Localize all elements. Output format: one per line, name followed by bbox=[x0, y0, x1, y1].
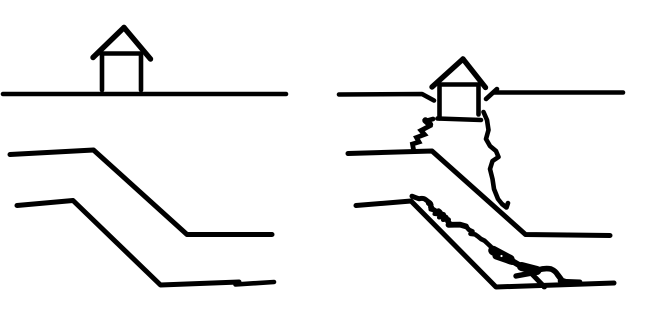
slope crack lower squiggle bbox=[466, 226, 491, 246]
left layer 2 line bbox=[17, 201, 239, 286]
left crack zigzag bbox=[413, 119, 434, 150]
right house roof left slope bbox=[432, 59, 463, 87]
left crack knot bbox=[426, 121, 431, 125]
right ground line left segment bbox=[339, 94, 434, 101]
slope crack diagonal spur bbox=[530, 272, 544, 287]
slope crack junction blob bbox=[522, 267, 538, 271]
slope crack knot blob lower bbox=[496, 256, 512, 262]
slope crack jagged upper squiggle bbox=[412, 196, 449, 222]
right layer 2 line bbox=[356, 201, 614, 287]
left house roof right slope bbox=[124, 28, 151, 60]
right house left wall bbox=[437, 85, 442, 119]
left layer 2 line overlap segment bbox=[236, 282, 275, 285]
right ground line right segment bbox=[494, 90, 623, 95]
slope crack knot pinhole bbox=[500, 255, 502, 257]
slope crack bottom horizontal bar bbox=[516, 273, 533, 276]
slope crack bottom tail overlap bbox=[560, 279, 580, 284]
slope crack spur end blob bbox=[542, 284, 548, 290]
right house bottom line bbox=[438, 119, 482, 121]
slope crack upper squiggle doubled texture bbox=[428, 204, 447, 221]
left house eave line bbox=[101, 51, 141, 56]
slope crack arc over line bbox=[538, 269, 566, 282]
slope crack knot blob bbox=[493, 251, 510, 260]
left house roof left slope bbox=[93, 28, 124, 58]
right crack bbox=[484, 112, 509, 208]
right house right wall bbox=[476, 85, 481, 115]
left layer 1 line bbox=[10, 150, 272, 235]
left house right wall bbox=[139, 55, 144, 90]
right layer 1 line bbox=[348, 151, 610, 236]
right ground break tick bbox=[486, 89, 497, 99]
slope crack knot exit bbox=[513, 262, 526, 269]
slope crack mid bar bbox=[449, 225, 467, 227]
right house roof right slope bbox=[463, 59, 486, 88]
right house eave line bbox=[440, 82, 479, 87]
left house left wall bbox=[100, 55, 105, 90]
left ground line bbox=[3, 92, 286, 97]
